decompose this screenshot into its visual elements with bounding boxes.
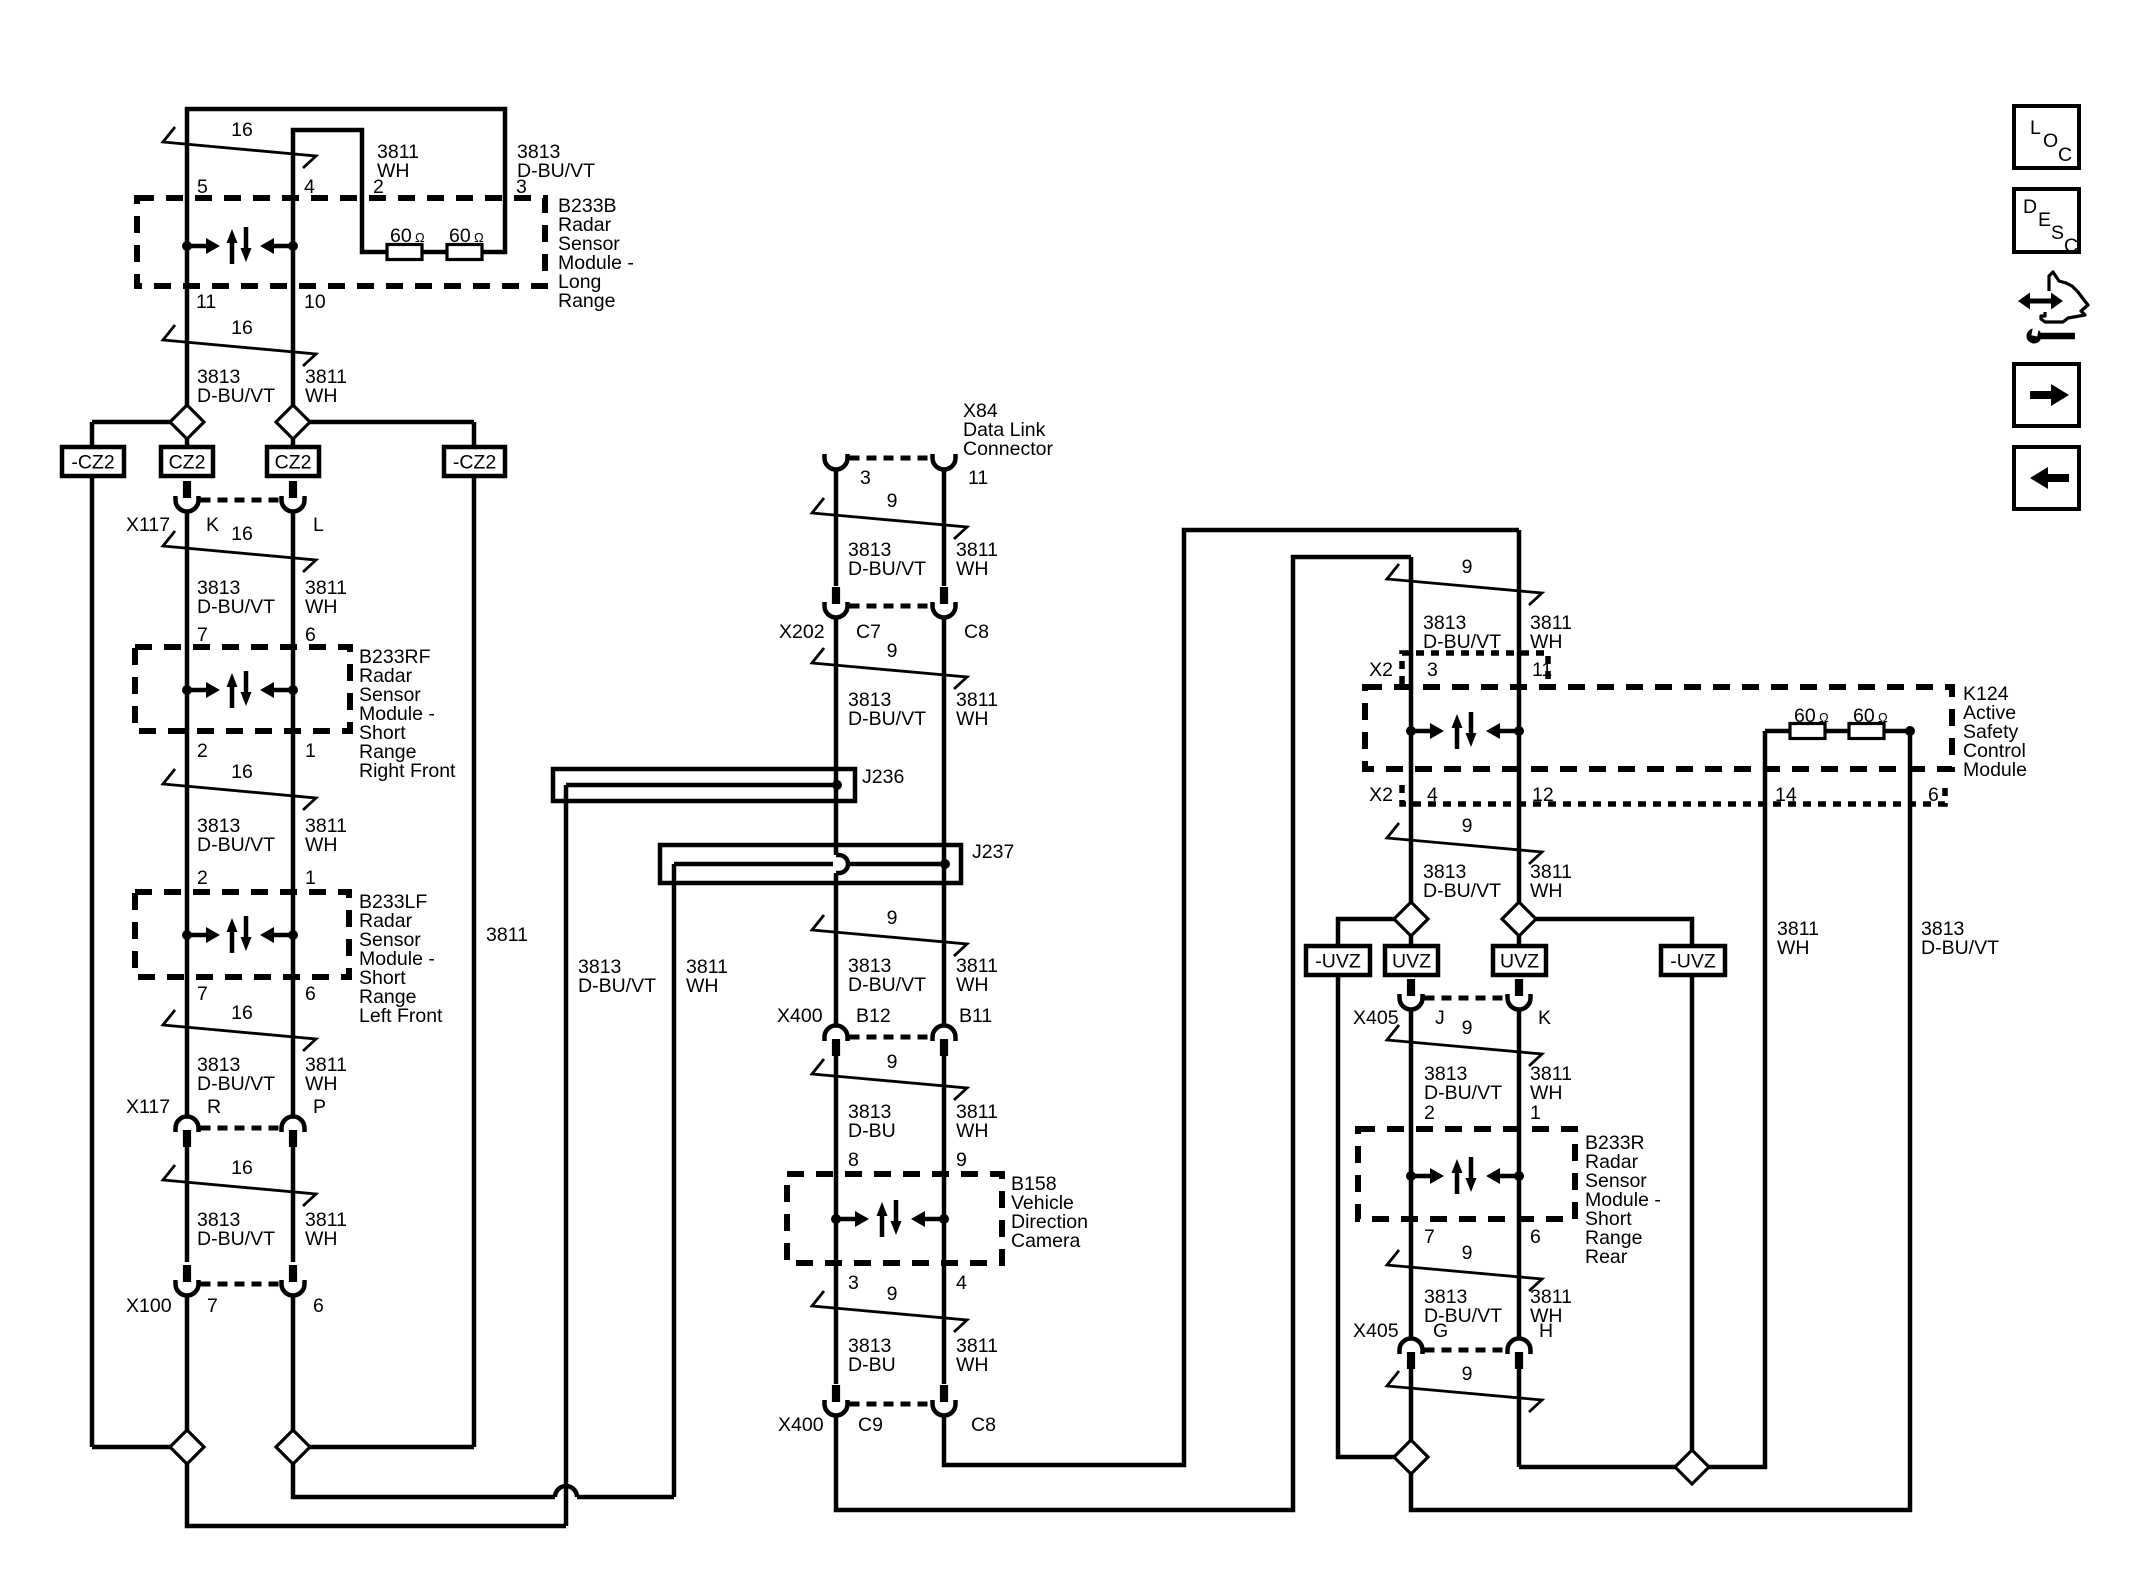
svg-text:11: 11: [1532, 659, 1552, 681]
svg-text:11: 11: [196, 291, 216, 313]
svg-text:3811: 3811: [486, 924, 528, 946]
svg-text:UVZ: UVZ: [1392, 951, 1431, 973]
svg-text:O: O: [2043, 130, 2058, 152]
svg-text:Left Front: Left Front: [359, 1005, 443, 1027]
svg-text:D-BU/VT: D-BU/VT: [578, 975, 656, 997]
svg-text:2: 2: [197, 740, 208, 762]
svg-text:WH: WH: [305, 596, 338, 618]
svg-text:9: 9: [887, 640, 898, 662]
svg-text:CZ2: CZ2: [275, 452, 312, 474]
svg-text:7: 7: [197, 624, 208, 646]
svg-text:X100: X100: [126, 1295, 172, 1317]
svg-text:P: P: [313, 1096, 326, 1118]
svg-text:9: 9: [887, 490, 898, 512]
svg-text:16: 16: [231, 317, 253, 339]
svg-text:WH: WH: [1530, 631, 1563, 653]
svg-text:2: 2: [1424, 1102, 1435, 1124]
svg-text:X400: X400: [777, 1005, 823, 1027]
svg-text:-UVZ: -UVZ: [1670, 951, 1716, 973]
svg-text:7: 7: [207, 1295, 218, 1317]
svg-text:9: 9: [1462, 1242, 1473, 1264]
svg-text:WH: WH: [956, 1120, 989, 1142]
svg-text:9: 9: [887, 1051, 898, 1073]
svg-text:3: 3: [848, 1272, 859, 1294]
svg-text:Connector: Connector: [963, 438, 1053, 460]
svg-text:9: 9: [956, 1149, 967, 1171]
svg-text:D-BU/VT: D-BU/VT: [517, 160, 595, 182]
svg-text:D-BU/VT: D-BU/VT: [197, 1073, 275, 1095]
svg-text:WH: WH: [1530, 1082, 1563, 1104]
svg-text:16: 16: [231, 761, 253, 783]
svg-text:9: 9: [1462, 1017, 1473, 1039]
svg-text:60: 60: [1853, 705, 1875, 727]
svg-text:X405: X405: [1353, 1007, 1399, 1029]
svg-text:D-BU/VT: D-BU/VT: [848, 974, 926, 996]
svg-text:16: 16: [231, 119, 253, 141]
svg-text:WH: WH: [956, 1354, 989, 1376]
svg-text:J237: J237: [972, 841, 1014, 863]
svg-text:D-BU/VT: D-BU/VT: [848, 708, 926, 730]
svg-text:16: 16: [231, 1157, 253, 1179]
svg-text:WH: WH: [377, 160, 410, 182]
svg-text:-UVZ: -UVZ: [1315, 951, 1361, 973]
svg-text:K: K: [1538, 1007, 1551, 1029]
svg-text:1: 1: [1530, 1102, 1541, 1124]
svg-text:Range: Range: [558, 290, 615, 312]
svg-text:Module: Module: [1963, 759, 2027, 781]
svg-text:WH: WH: [686, 975, 719, 997]
svg-text:S: S: [2051, 222, 2064, 244]
svg-text:60: 60: [449, 225, 471, 247]
svg-text:4: 4: [956, 1272, 967, 1294]
svg-text:WH: WH: [305, 1228, 338, 1250]
svg-text:C8: C8: [964, 621, 989, 643]
svg-text:6: 6: [313, 1295, 324, 1317]
svg-text:D-BU/VT: D-BU/VT: [197, 834, 275, 856]
svg-text:K: K: [206, 514, 219, 536]
svg-text:4: 4: [304, 176, 315, 198]
svg-text:D: D: [2023, 196, 2037, 218]
svg-text:D-BU/VT: D-BU/VT: [197, 596, 275, 618]
svg-text:1: 1: [305, 740, 316, 762]
svg-text:9: 9: [1462, 556, 1473, 578]
svg-text:X117: X117: [126, 1096, 170, 1118]
svg-text:WH: WH: [305, 834, 338, 856]
svg-text:5: 5: [197, 176, 208, 198]
svg-text:X2: X2: [1369, 784, 1393, 806]
svg-text:L: L: [313, 514, 324, 536]
svg-text:9: 9: [887, 1283, 898, 1305]
svg-text:Ω: Ω: [1819, 710, 1829, 725]
svg-text:L: L: [2030, 117, 2041, 139]
svg-text:D-BU/VT: D-BU/VT: [197, 385, 275, 407]
svg-text:16: 16: [231, 1002, 253, 1024]
svg-text:6: 6: [305, 983, 316, 1005]
svg-text:C: C: [2058, 144, 2072, 166]
svg-text:CZ2: CZ2: [169, 452, 206, 474]
svg-text:X202: X202: [779, 621, 825, 643]
svg-text:WH: WH: [956, 708, 989, 730]
svg-text:D-BU/VT: D-BU/VT: [197, 1228, 275, 1250]
svg-text:-CZ2: -CZ2: [453, 452, 496, 474]
svg-text:3: 3: [860, 467, 871, 489]
svg-text:E: E: [2038, 209, 2051, 231]
svg-text:3: 3: [1427, 659, 1438, 681]
svg-text:X117: X117: [126, 514, 170, 536]
svg-text:1: 1: [305, 867, 316, 889]
svg-text:60: 60: [390, 225, 412, 247]
svg-text:9: 9: [1462, 1363, 1473, 1385]
svg-text:Camera: Camera: [1011, 1230, 1081, 1252]
svg-text:Ω: Ω: [474, 230, 484, 245]
svg-text:X2: X2: [1369, 659, 1393, 681]
svg-text:7: 7: [197, 983, 208, 1005]
svg-text:C: C: [2064, 235, 2078, 257]
svg-text:R: R: [207, 1096, 221, 1118]
svg-text:Right Front: Right Front: [359, 760, 456, 782]
svg-text:C9: C9: [858, 1414, 883, 1436]
svg-text:6: 6: [305, 624, 316, 646]
svg-text:6: 6: [1530, 1226, 1541, 1248]
svg-text:WH: WH: [956, 558, 989, 580]
svg-text:D-BU/VT: D-BU/VT: [1424, 1082, 1502, 1104]
svg-text:B11: B11: [959, 1005, 992, 1027]
svg-text:9: 9: [887, 907, 898, 929]
svg-text:8: 8: [848, 1149, 859, 1171]
svg-text:G: G: [1433, 1320, 1448, 1342]
svg-text:J236: J236: [862, 766, 904, 788]
svg-text:D-BU/VT: D-BU/VT: [848, 558, 926, 580]
svg-text:60: 60: [1794, 705, 1816, 727]
svg-text:J: J: [1435, 1007, 1445, 1029]
svg-text:C8: C8: [971, 1414, 996, 1436]
svg-text:X405: X405: [1353, 1320, 1399, 1342]
svg-text:WH: WH: [305, 385, 338, 407]
svg-text:D-BU: D-BU: [848, 1120, 896, 1142]
svg-text:B12: B12: [856, 1005, 891, 1027]
svg-text:WH: WH: [305, 1073, 338, 1095]
svg-text:D-BU: D-BU: [848, 1354, 896, 1376]
svg-text:Ω: Ω: [1878, 710, 1888, 725]
svg-text:WH: WH: [1530, 880, 1563, 902]
svg-text:-CZ2: -CZ2: [71, 452, 114, 474]
svg-text:UVZ: UVZ: [1500, 951, 1539, 973]
svg-text:X400: X400: [778, 1414, 824, 1436]
svg-text:16: 16: [231, 523, 253, 545]
svg-text:9: 9: [1462, 815, 1473, 837]
svg-text:Rear: Rear: [1585, 1246, 1628, 1268]
svg-text:D-BU/VT: D-BU/VT: [1423, 880, 1501, 902]
svg-text:2: 2: [197, 867, 208, 889]
svg-text:D-BU/VT: D-BU/VT: [1423, 631, 1501, 653]
svg-text:D-BU/VT: D-BU/VT: [1921, 937, 1999, 959]
svg-text:WH: WH: [956, 974, 989, 996]
svg-text:10: 10: [304, 291, 326, 313]
svg-text:C7: C7: [856, 621, 881, 643]
svg-text:H: H: [1539, 1320, 1553, 1342]
svg-text:11: 11: [968, 467, 988, 489]
svg-text:7: 7: [1424, 1226, 1435, 1248]
svg-text:WH: WH: [1777, 937, 1810, 959]
svg-text:Ω: Ω: [415, 230, 425, 245]
